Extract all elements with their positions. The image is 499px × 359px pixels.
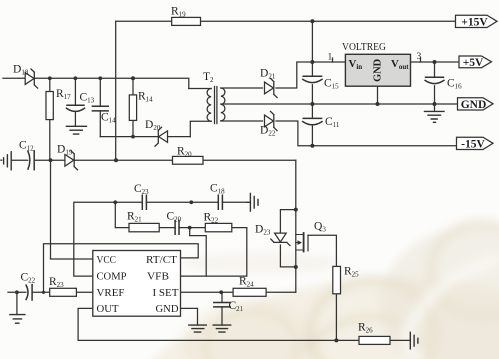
diode D20 [155,127,168,146]
wire VFB jog [190,228,207,277]
wire rail D [11,159,296,161]
wire C21 drop [221,292,223,325]
capacitor C16 [425,77,444,83]
voltage regulator U VOLTREG [345,54,410,86]
svg-text:I SET: I SET [153,287,179,299]
node rail D R17 bottom [49,158,53,162]
wire feedback bottom line [115,202,247,227]
wire C14 drop [99,78,101,136]
diode D22 [265,111,278,130]
ground left of C12 [1,152,11,170]
wire D23 bottom stub [280,245,295,267]
svg-text:+5V: +5V [463,57,484,69]
wire VREF line [8,291,93,293]
transformer T2 primary winding [207,89,211,122]
terminal -15V [457,137,494,149]
node rail D R19 drop [114,158,118,162]
node +15V rail to C15 column [310,19,314,23]
resistor R24 [233,288,266,296]
wire gnd terminal drop [434,104,436,111]
resistor R23 [50,288,77,296]
node feedback top left [113,200,117,204]
VOLTREG pin1 tick [332,58,334,62]
transformer T2 core [215,87,217,124]
wire R14 drop [132,78,134,136]
wire ISET line [181,291,296,293]
wire gate lead to R25 [308,235,336,266]
wire R17 drop [49,78,51,160]
node GND rail C15 bottom [310,102,314,106]
svg-text:VCC: VCC [97,254,117,266]
node bottom rail R25 tap [334,338,338,342]
wire RT/CT loop [44,244,199,293]
capacitor C22 [26,285,32,300]
resistor R20 [173,156,204,164]
node Vin line C15 top [310,60,314,64]
ground under C21 [213,325,231,332]
wire secondary center tap / GND rail [221,103,458,105]
wire primary top lead [189,88,211,90]
ground under GND terminal junction [425,111,445,122]
wire R19 rail left drop [115,21,117,160]
capacitor C23 [142,195,146,209]
capacitor C20 [175,221,179,235]
terminal GND [458,98,494,110]
node VREF line RT-CT loop tap [42,291,45,294]
node GND rail regulator lead [376,102,380,106]
node rail C R14 bottom [131,135,135,139]
wire D23 top stub [280,210,295,233]
node drain line D23 bottom [294,265,298,269]
wire rail C [100,136,190,138]
resistor R14 [129,95,136,121]
svg-text:3: 3 [417,52,422,62]
capacitor C15 [303,76,322,82]
wire +15V rail [116,20,456,22]
ground right of C18 [247,194,258,212]
resistor R26 [359,336,390,344]
svg-text:VFB: VFB [147,271,169,283]
ground under C22 node [10,315,25,324]
wire VCC riser [51,160,93,259]
diode D19 [65,151,78,170]
svg-text:+15V: +15V [461,16,488,28]
wire bottom rail right [390,339,410,341]
wire drain drop [295,160,297,292]
svg-text:COMP: COMP [97,271,127,283]
terminal +15V [456,15,498,27]
resistor R21 [129,223,159,231]
svg-text:RT/CT: RT/CT [146,254,177,266]
ground under GND pin [189,325,207,332]
svg-text:OUT: OUT [97,303,119,315]
wire +15V to C15 column [311,21,313,146]
svg-text:-15V: -15V [461,138,485,150]
capacitor C13 [67,105,85,111]
node feedback bottom R22 left [188,226,192,230]
wire VOLTREG gnd lead [377,86,379,104]
wire R22 right drop to VFB [181,228,247,277]
capacitor C21 [214,303,230,307]
svg-text:VOLTREG: VOLTREG [342,42,386,53]
wire GND pin lead [181,308,198,325]
wire C13 drop [74,78,76,126]
VOLTREG pin3 tick [420,58,422,62]
transistor Q3 [296,233,308,252]
ground under C13 [66,126,86,134]
svg-text:GND: GND [156,303,179,315]
wire Vout to +5V [411,61,460,63]
PWM controller IC box [93,251,181,317]
zener D23 [271,233,290,246]
node rail B C13 tap [74,76,78,80]
wire secondary bottom lead to D22 [221,120,263,122]
wire input rail B [3,78,189,88]
svg-text:GND: GND [373,59,384,82]
wire secondary top lead to D21 [221,87,263,89]
node drain line D23 top [294,208,298,212]
svg-text:VREF: VREF [97,287,125,299]
wire D22 to -15V rail [276,121,457,146]
ground right of R26 [410,332,418,349]
capacitor C14 [92,106,108,111]
terminal +5V [459,56,492,68]
diode D21 [265,78,278,97]
wire OUT loop [78,308,359,340]
node rail B R14 tap [131,76,135,80]
capacitor C18 [218,195,222,209]
diode D18 [25,69,37,88]
node VREF line C22 ground tap [15,290,19,294]
transformer T2 secondary winding [221,88,225,121]
node Vout line C16 top [433,60,437,64]
resistor R22 [205,223,232,231]
wire D21 to Vin [276,62,345,88]
node rail B R17 tap [48,76,52,80]
resistor R17 [46,92,53,120]
resistor R19 [172,17,201,25]
svg-text:1: 1 [328,53,333,63]
node GND rail C16 bottom [433,102,437,106]
node ISET line C21 tap [219,290,223,294]
wire feedback top line [74,202,247,276]
node rail B C14 tap [98,76,102,80]
capacitor C12 [28,151,34,170]
resistor R25 [333,266,341,293]
node -15V rail C11 bottom [310,144,314,148]
wire primary bottom lead [190,121,211,136]
svg-text:GND: GND [461,99,487,111]
capacitor C11 [303,118,322,124]
wire C16 column [434,62,436,104]
wire C22 gnd drop [16,292,18,314]
node feedback top right [189,200,193,204]
wire R25 bottom [335,294,337,341]
